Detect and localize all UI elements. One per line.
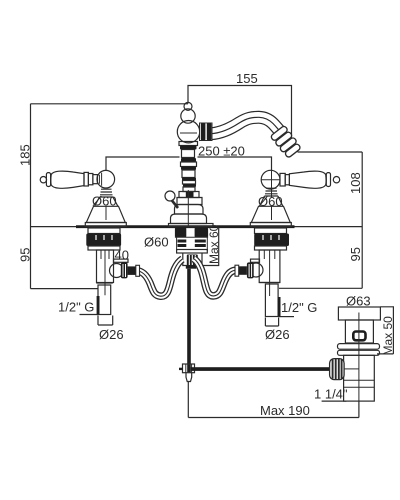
waste overflow hole <box>353 332 365 341</box>
left handle connector rings <box>84 172 88 186</box>
column rings under hub <box>179 142 198 192</box>
spout aerator <box>270 125 302 158</box>
svg-text:185: 185 <box>18 144 33 166</box>
svg-text:1/2" G: 1/2" G <box>58 300 94 315</box>
waste center line <box>358 313 360 402</box>
dimension bracket Ø26 left <box>98 316 113 326</box>
column bell tier 1 <box>177 198 202 205</box>
column bell tier 2 <box>175 205 204 215</box>
right valve locknut <box>254 228 289 250</box>
dimension bracket Ø26 right <box>265 318 278 327</box>
waste cap <box>338 307 380 320</box>
center shank locknut <box>175 228 208 238</box>
dimension Max 190 lines <box>188 381 359 417</box>
column collar with rod socket <box>179 192 199 198</box>
svg-text:Ø26: Ø26 <box>99 327 124 342</box>
dimension 108 top horizontal <box>298 151 363 153</box>
dimension 95 left bottom horizontal <box>31 288 99 290</box>
right flexible hose <box>194 259 235 296</box>
svg-text:1 1/4": 1 1/4" <box>314 387 348 402</box>
column bell base <box>169 224 214 227</box>
spout hub body <box>177 121 199 143</box>
pop-up rod clamp <box>179 364 195 373</box>
spout connector ribs <box>200 123 213 141</box>
left valve locknut <box>86 228 121 250</box>
center threaded shank <box>177 237 208 251</box>
left escutcheon <box>86 206 125 222</box>
leader line 1 1/4" <box>322 400 347 402</box>
svg-text:155: 155 <box>236 71 258 86</box>
dimension 95 right bottom horizontal <box>279 287 362 289</box>
left handle ball <box>97 170 115 188</box>
waste coupling ring 1 <box>338 344 380 350</box>
left hose end washer <box>136 265 140 276</box>
right escutcheon base <box>250 223 291 227</box>
svg-text:Ø60: Ø60 <box>144 235 169 250</box>
left supply tail <box>96 283 113 315</box>
right handle stem <box>265 188 279 196</box>
right handle flange <box>260 196 283 206</box>
dimension 108/95 right vertical line <box>361 152 363 288</box>
svg-text:Max 60: Max 60 <box>207 224 221 264</box>
pop-up rod pin <box>186 373 192 382</box>
svg-text:Ø63: Ø63 <box>346 294 371 309</box>
spout tube (3-line) <box>211 117 281 134</box>
Max 60 bracket <box>200 227 219 266</box>
pop-up lift knob <box>165 191 175 201</box>
right valve body <box>259 250 280 296</box>
pop-up rod vertical <box>187 269 191 373</box>
left flexible hose <box>136 259 183 296</box>
svg-text:Max 190: Max 190 <box>260 403 310 418</box>
left handle tip knob <box>40 173 50 187</box>
center tailpiece <box>183 253 202 269</box>
left handle grip <box>51 171 84 188</box>
deck line <box>31 226 363 228</box>
dimension 250 horizontal line <box>106 157 272 171</box>
column bell tier 3 <box>171 214 207 224</box>
right handle connector rings <box>280 173 285 186</box>
right handle grip <box>289 171 326 188</box>
svg-text:108: 108 <box>348 172 363 194</box>
left escutcheon center line <box>105 206 107 220</box>
center shank washer <box>177 250 208 254</box>
svg-text:95: 95 <box>348 247 363 261</box>
left escutcheon base <box>85 223 126 227</box>
spout ball <box>181 109 195 123</box>
right valve outlet boss <box>239 259 263 278</box>
rod line inside waste tube <box>344 368 359 370</box>
horizontal linkage rod <box>191 367 330 371</box>
svg-text:1/2" G: 1/2" G <box>281 300 317 315</box>
left valve body <box>97 250 114 295</box>
svg-text:Max 50: Max 50 <box>381 316 395 356</box>
svg-text:Ø26: Ø26 <box>265 327 290 342</box>
right escutcheon <box>251 206 290 222</box>
waste neck <box>345 320 373 343</box>
left valve outlet boss <box>110 259 136 278</box>
dimension 185 top horizontal line <box>31 103 189 105</box>
spout finial top circle <box>184 102 192 110</box>
leader line right <box>279 316 294 318</box>
leader line left <box>80 314 99 316</box>
waste clamp knob <box>330 359 345 380</box>
left handle stem <box>100 189 114 197</box>
svg-text:250 ±20: 250 ±20 <box>198 144 245 159</box>
column center line <box>187 190 189 227</box>
right hose end washer <box>235 265 239 276</box>
svg-text:95: 95 <box>18 248 33 262</box>
waste tube <box>344 355 375 401</box>
Max 50 bracket <box>377 307 393 354</box>
waste coupling ring 2 <box>338 350 380 355</box>
dimension 185/95 left vertical line <box>30 104 32 289</box>
dimension 155 lines <box>188 86 292 142</box>
right escutcheon center line <box>271 206 273 220</box>
pop-up knob rod <box>172 200 179 208</box>
right handle ball <box>261 170 280 189</box>
left handle flange <box>95 197 118 206</box>
right supply tail <box>259 283 280 317</box>
right handle tip knob <box>326 173 339 187</box>
